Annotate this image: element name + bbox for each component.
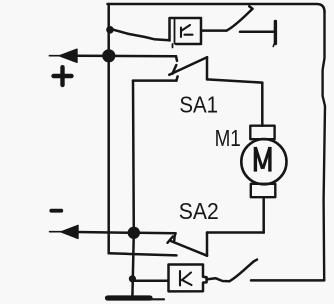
ground symbol xyxy=(108,298,165,299)
junction node: - rail xyxy=(128,227,140,239)
latch box YA1 (top) xyxy=(170,18,202,48)
wire: + horizontal rail to SA1 xyxy=(75,56,177,61)
negative terminal arrow xyxy=(50,225,78,238)
wire: to latch box YA2 xyxy=(132,279,168,282)
junction blob: brake branch tap xyxy=(106,26,114,34)
latch box YA2 (bottom) xyxy=(169,265,207,292)
motor M1 body xyxy=(241,139,286,184)
wire: + rail vertical (x=109) xyxy=(107,4,110,253)
motor M1 top brush xyxy=(250,126,274,140)
motor letter M xyxy=(255,147,270,172)
contact blade (top, YA1 released) xyxy=(227,6,253,30)
wire: YA1 output xyxy=(202,29,227,32)
svg-text:SA2: SA2 xyxy=(179,198,219,224)
wire: SA1 common riser xyxy=(206,57,209,79)
svg-text:SA1: SA1 xyxy=(179,91,218,118)
wire: inner top left (SA1 lower contact) xyxy=(133,76,178,80)
wire: SA2 common riser xyxy=(206,233,209,256)
contact stop bar (top) xyxy=(273,22,275,47)
motor M1 bottom brush xyxy=(251,184,275,197)
fixed contact wire (top) xyxy=(240,31,274,34)
wire: motor bottom lead xyxy=(262,197,265,232)
contact blade (bottom, YA2 released) xyxy=(230,260,258,282)
wire: motor top lead xyxy=(261,83,264,126)
switch SA2 blade xyxy=(171,241,207,256)
svg-text:M1: M1 xyxy=(215,127,241,152)
label SA1 xyxy=(179,91,218,118)
junction node: ground tap xyxy=(129,275,136,282)
wire: inner top right to motor xyxy=(207,79,262,82)
wire: right vertical rail xyxy=(323,12,325,280)
junction node: + rail xyxy=(102,49,115,62)
wire: inner left vertical (minus loop) xyxy=(132,81,135,233)
wire: ground vertical xyxy=(132,233,133,297)
wire: wavy branch to latch box YA1 xyxy=(110,29,170,41)
switch SA1 blade xyxy=(169,57,207,75)
label - xyxy=(51,209,61,213)
wire: SA2 common to motor xyxy=(207,231,264,234)
latch symbol inside YA1 xyxy=(181,25,193,37)
wire: bottom right horizontal to YA2 contact xyxy=(251,279,324,282)
wire: top horizontal rail xyxy=(108,4,325,12)
wire: YA2 output xyxy=(207,278,230,281)
wire: - horizontal rail to SA2 xyxy=(77,232,176,240)
switch SA1 tick (upper fixed contact mark) xyxy=(172,65,176,74)
label SA2 xyxy=(179,198,219,224)
wire: + rail lower horizontal to SA2 lower contact xyxy=(109,253,177,255)
latch symbol inside YA2 xyxy=(180,271,192,286)
label + xyxy=(54,67,72,85)
positive terminal arrow xyxy=(49,49,77,62)
label M1 xyxy=(215,127,241,152)
switch SA2 tick (upper fixed contact mark) xyxy=(168,237,173,243)
